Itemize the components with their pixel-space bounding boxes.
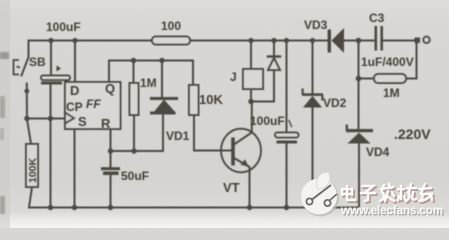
wire CP line xyxy=(27,118,65,120)
node 100uF right bottom xyxy=(284,205,289,210)
wire 10K bottom to base xyxy=(194,115,232,151)
zener VD2 right wing xyxy=(321,95,323,101)
wire VD4 top leg xyxy=(358,79,360,130)
wire left rail top to switch xyxy=(29,41,31,58)
svg-text:D: D xyxy=(70,83,79,98)
resistor 100K xyxy=(26,144,38,187)
node C3 input xyxy=(356,38,362,44)
terminal circle xyxy=(423,37,429,43)
node S pin bottom xyxy=(72,205,77,210)
node flyback top xyxy=(271,38,276,43)
zener VD4 bar xyxy=(346,129,373,132)
capacitor C 100uF left bottom plate xyxy=(41,82,62,85)
wire left rail to 100K xyxy=(27,91,31,144)
capacitor 100uF right top plate xyxy=(275,133,299,138)
diode VD3 cathode bar xyxy=(328,30,331,53)
svg-text:Q: Q xyxy=(105,81,115,96)
svg-text:1uF/400V: 1uF/400V xyxy=(361,55,414,69)
watermark chinese text xyxy=(344,186,434,203)
wire 10K top corner xyxy=(192,61,194,86)
node VD2 bottom xyxy=(310,205,315,210)
svg-text:.220V: .220V xyxy=(394,126,431,142)
node 100uF at bottom rail xyxy=(48,205,53,210)
node emitter bottom xyxy=(247,205,252,210)
capacitor C3 left plate xyxy=(375,26,378,51)
wire VD2 bottom leg xyxy=(312,108,314,208)
wire VD4 bottom leg xyxy=(358,144,360,208)
node switch bottom xyxy=(24,89,29,94)
wire VD1 bottom leg xyxy=(111,114,164,151)
node CP tap on left rail xyxy=(24,116,29,121)
zener VD2 triangle xyxy=(303,96,322,108)
node CP/cap junction xyxy=(48,116,53,121)
wire 1M bottom leg xyxy=(133,115,135,151)
wire to 1M right xyxy=(359,78,375,80)
node collector junction xyxy=(248,99,253,104)
svg-text:VT: VT xyxy=(223,180,240,195)
wire 100uF right top leg xyxy=(286,41,288,133)
capacitor C 100uF left top plate xyxy=(41,76,70,81)
diode VD1 cathode bar xyxy=(150,97,178,100)
wire Q output rail xyxy=(109,60,193,62)
watermark logo xyxy=(301,172,339,217)
svg-text:C3: C3 xyxy=(369,11,385,25)
node D pin tap xyxy=(72,38,77,43)
transistor VT base bar xyxy=(231,138,235,166)
svg-text:S: S xyxy=(78,114,87,129)
node 100uF cap top xyxy=(48,38,53,43)
transistor VT circle xyxy=(221,129,261,173)
diode VD1 base bar xyxy=(150,112,176,115)
svg-text:10K: 10K xyxy=(199,92,223,107)
wire 100K to bottom rail xyxy=(29,187,32,208)
wire bottom rail xyxy=(29,207,359,209)
svg-text:CP: CP xyxy=(66,100,83,114)
svg-text:VD4: VD4 xyxy=(366,145,390,159)
transistor VT emitter xyxy=(234,158,250,208)
polarity tick xyxy=(289,121,292,127)
wire 100uF bottom leg down to bottom rail xyxy=(50,85,52,208)
node 100uF right top xyxy=(284,38,289,43)
flyback diode cathode bar xyxy=(268,55,280,57)
node 1M bottom junction xyxy=(131,148,136,153)
emitter arrow xyxy=(241,159,249,166)
capacitor C3 right plate xyxy=(380,26,383,51)
switch SB lever xyxy=(22,57,29,76)
svg-text:R: R xyxy=(101,116,111,131)
capacitor 50uF bottom plate xyxy=(103,172,119,176)
svg-text:VD3: VD3 xyxy=(304,18,328,32)
svg-text:J: J xyxy=(230,70,237,84)
node VD2 top xyxy=(310,38,315,43)
wire top rail xyxy=(31,40,416,42)
diode VD1 triangle xyxy=(153,100,176,114)
wire VD2 top leg xyxy=(312,41,314,94)
flyback diode triangle xyxy=(268,58,280,70)
polarity mark xyxy=(57,66,62,72)
switch SB bottom contact xyxy=(26,84,28,92)
resistor R 1M vertical xyxy=(130,83,139,115)
svg-text:VD1: VD1 xyxy=(166,129,190,143)
wire D pin xyxy=(74,41,76,83)
relay J coil box xyxy=(243,69,263,89)
terminal square xyxy=(415,38,421,44)
zener VD4 left wing xyxy=(346,125,348,131)
resistor 10K body xyxy=(189,85,199,115)
wire S pin to bottom rail xyxy=(74,129,76,208)
node 50uF bottom xyxy=(108,205,113,210)
bracket mark xyxy=(14,60,21,75)
svg-text:VD2: VD2 xyxy=(323,96,347,110)
svg-text:SB: SB xyxy=(29,55,46,69)
wire 1M right branch down xyxy=(358,41,360,79)
svg-text:50uF: 50uF xyxy=(121,169,149,183)
diode VD3 triangle xyxy=(332,28,345,53)
svg-text:FF: FF xyxy=(86,97,101,111)
transistor VT collector xyxy=(234,102,252,145)
zener VD2 left wing xyxy=(302,89,304,95)
zener VD4 triangle xyxy=(348,133,371,144)
resistor 100 ohm body xyxy=(152,37,190,45)
node 1M right tap xyxy=(356,76,362,82)
svg-text:100K: 100K xyxy=(27,157,39,183)
node relay top xyxy=(248,38,253,43)
wire flyback diode top leg xyxy=(273,41,275,58)
capacitor 50uF top plate xyxy=(101,167,120,170)
wire VD1 top leg xyxy=(161,61,163,98)
svg-text:1M: 1M xyxy=(383,86,400,100)
wire relay bottom leg xyxy=(251,70,274,102)
wire 1M top leg xyxy=(133,61,135,84)
wire Q pin up xyxy=(108,61,110,83)
node R/50uF junction xyxy=(108,148,113,153)
node VD1 tap xyxy=(159,58,164,63)
svg-text:100uF: 100uF xyxy=(250,114,285,128)
capacitor 100uF right bottom plate xyxy=(277,141,298,144)
zener VD2 bar xyxy=(302,93,323,96)
wire R pin down xyxy=(110,129,112,167)
flip-flop U1 FF box xyxy=(65,82,121,129)
wire 50uF bottom leg xyxy=(110,175,112,208)
wire 100uF right bottom leg xyxy=(286,144,288,208)
svg-text:1M: 1M xyxy=(140,76,157,90)
wire relay top leg xyxy=(250,41,252,70)
resistor 1M right body xyxy=(374,74,406,83)
wire 1M right to corner up xyxy=(406,41,417,79)
clock chevron CP xyxy=(65,113,74,124)
node 1M tap xyxy=(131,58,136,63)
wire 100uF top leg xyxy=(50,41,52,76)
svg-text:www.elecfans.com: www.elecfans.com xyxy=(340,203,443,217)
svg-text:100: 100 xyxy=(161,19,181,33)
svg-text:100uF: 100uF xyxy=(46,20,81,34)
